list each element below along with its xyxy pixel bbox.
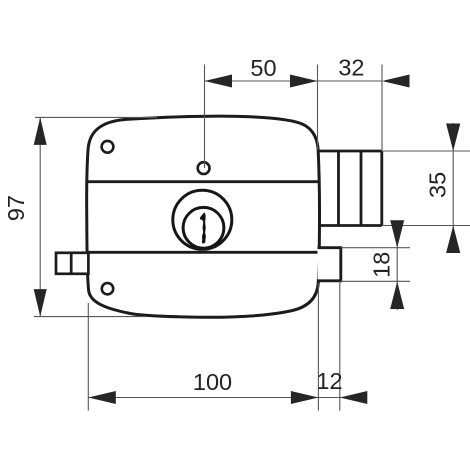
- screw hole top-left: [102, 141, 114, 153]
- latch bottom right: [318, 248, 341, 281]
- top dim line y=81: [205, 80, 383, 82]
- ext line x=317.5 (50 right / 32 left): [317, 65, 319, 151]
- key profile silhouette: [200, 212, 206, 243]
- svg-text:50: 50: [250, 55, 276, 81]
- 18 bottom ext line: [341, 280, 410, 282]
- arrow 35 bottom (outside, pointing up): [446, 226, 460, 254]
- arrow 18 top (outside, pointing down): [390, 220, 404, 248]
- arrow 100 right: [291, 391, 319, 404]
- 97 dim line: [39, 117, 41, 316]
- bolt left: [56, 253, 88, 274]
- screw hole bottom-left: [102, 283, 113, 294]
- 97 bottom ext line: [34, 316, 146, 318]
- arrow 35 top (outside, pointing down): [446, 124, 460, 152]
- svg-text:97: 97: [3, 195, 29, 221]
- 97 top ext line: [35, 116, 157, 118]
- bottom ext x=318.4: [317, 283, 319, 411]
- small hole top-center: [198, 162, 210, 174]
- 35 bottom ext line: [382, 225, 470, 227]
- horizontal interior line 1: [87, 180, 319, 183]
- keyhole inner circle: [183, 207, 224, 248]
- 35 dim line: [452, 123, 454, 251]
- bottom dim line y=397.5: [88, 397, 367, 399]
- svg-text:35: 35: [424, 172, 450, 198]
- svg-text:32: 32: [338, 55, 364, 81]
- arrow 50 left: [205, 75, 233, 88]
- arrow 97 top: [34, 117, 47, 144]
- 18 top ext line: [341, 247, 410, 249]
- lock body outline: [87, 116, 320, 317]
- bottom ext x=339.8: [339, 281, 341, 410]
- arrow 18 bottom (outside, pointing up): [390, 282, 404, 310]
- arrow 100 left: [88, 391, 116, 404]
- 35 top ext line: [382, 150, 470, 152]
- arrow 50 right: [290, 75, 318, 88]
- ext line x=382 (32 right): [381, 65, 383, 151]
- keyhole outer circle: [173, 190, 232, 249]
- cylinder block right: [318, 151, 382, 226]
- arrow 32 right (outside): [382, 75, 410, 88]
- svg-text:12: 12: [316, 368, 342, 394]
- arrow 12 right (outside): [340, 391, 368, 404]
- bottom ext x=88.3: [87, 303, 89, 411]
- 18 dim line: [396, 221, 398, 310]
- svg-text:100: 100: [193, 369, 232, 395]
- horizontal interior line 2: [87, 251, 319, 254]
- svg-text:18: 18: [368, 252, 394, 278]
- ext line x=204.5 (50 left): [204, 65, 206, 169]
- arrow 97 bottom: [34, 289, 47, 317]
